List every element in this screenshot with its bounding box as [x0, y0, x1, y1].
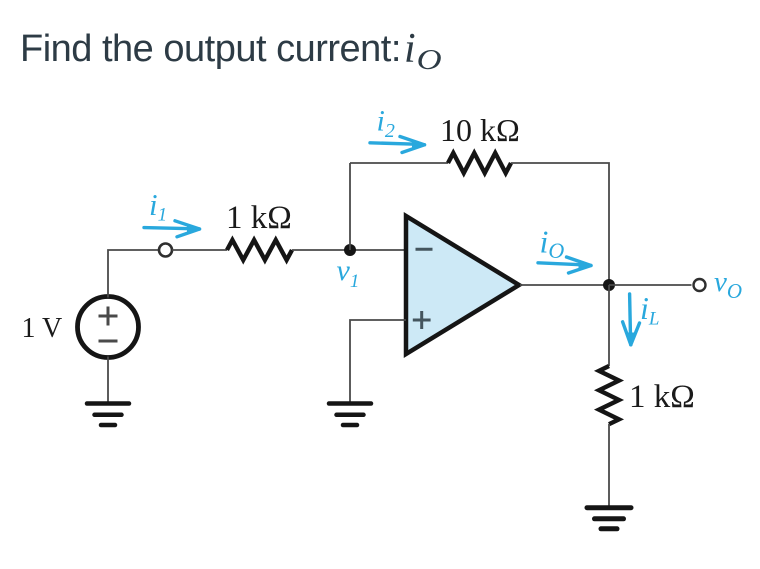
- wire plus input to ground: [350, 320, 406, 402]
- wire R1 to op-amp minus input: [292, 249, 406, 251]
- op-amp U1: [406, 216, 519, 354]
- node v1: [344, 244, 356, 256]
- svg-text:1 V: 1 V: [22, 313, 63, 344]
- terminal (input open circle): [159, 244, 172, 257]
- svg-text:Find the output current:: Find the output current:: [20, 28, 401, 70]
- svg-text:1 kΩ: 1 kΩ: [226, 200, 292, 236]
- resistor R3 (load): [599, 366, 619, 424]
- svg-text:10 kΩ: 10 kΩ: [440, 112, 520, 148]
- title: Find the output current: iO: [20, 26, 442, 76]
- resistor R1: [227, 240, 292, 260]
- resistor R2: [448, 153, 511, 173]
- arrow iO: [538, 257, 592, 273]
- terminal vO (open circle): [694, 279, 706, 291]
- wire node to terminal vO: [609, 284, 692, 286]
- voltage source V1: [78, 297, 139, 358]
- wire feedback left segment: [350, 162, 448, 164]
- wire source top to terminal: [108, 250, 159, 298]
- arrow i2: [370, 137, 425, 153]
- arrow iL: [623, 294, 640, 346]
- wire source bottom to ground: [107, 357, 109, 402]
- wire feedback right segment: [511, 163, 609, 285]
- wire node v1 up to feedback: [349, 163, 351, 250]
- wire terminal to R1: [172, 249, 227, 251]
- arrow i1: [144, 221, 200, 237]
- wire node down to R3: [608, 285, 610, 366]
- wire R3 to ground: [608, 424, 610, 506]
- ground (load): [587, 508, 631, 529]
- ground (op-amp plus input): [329, 404, 371, 426]
- node output: [603, 279, 615, 291]
- svg-text:1 kΩ: 1 kΩ: [629, 379, 695, 415]
- ground (source): [87, 404, 129, 426]
- wire op-amp output to node: [520, 284, 609, 286]
